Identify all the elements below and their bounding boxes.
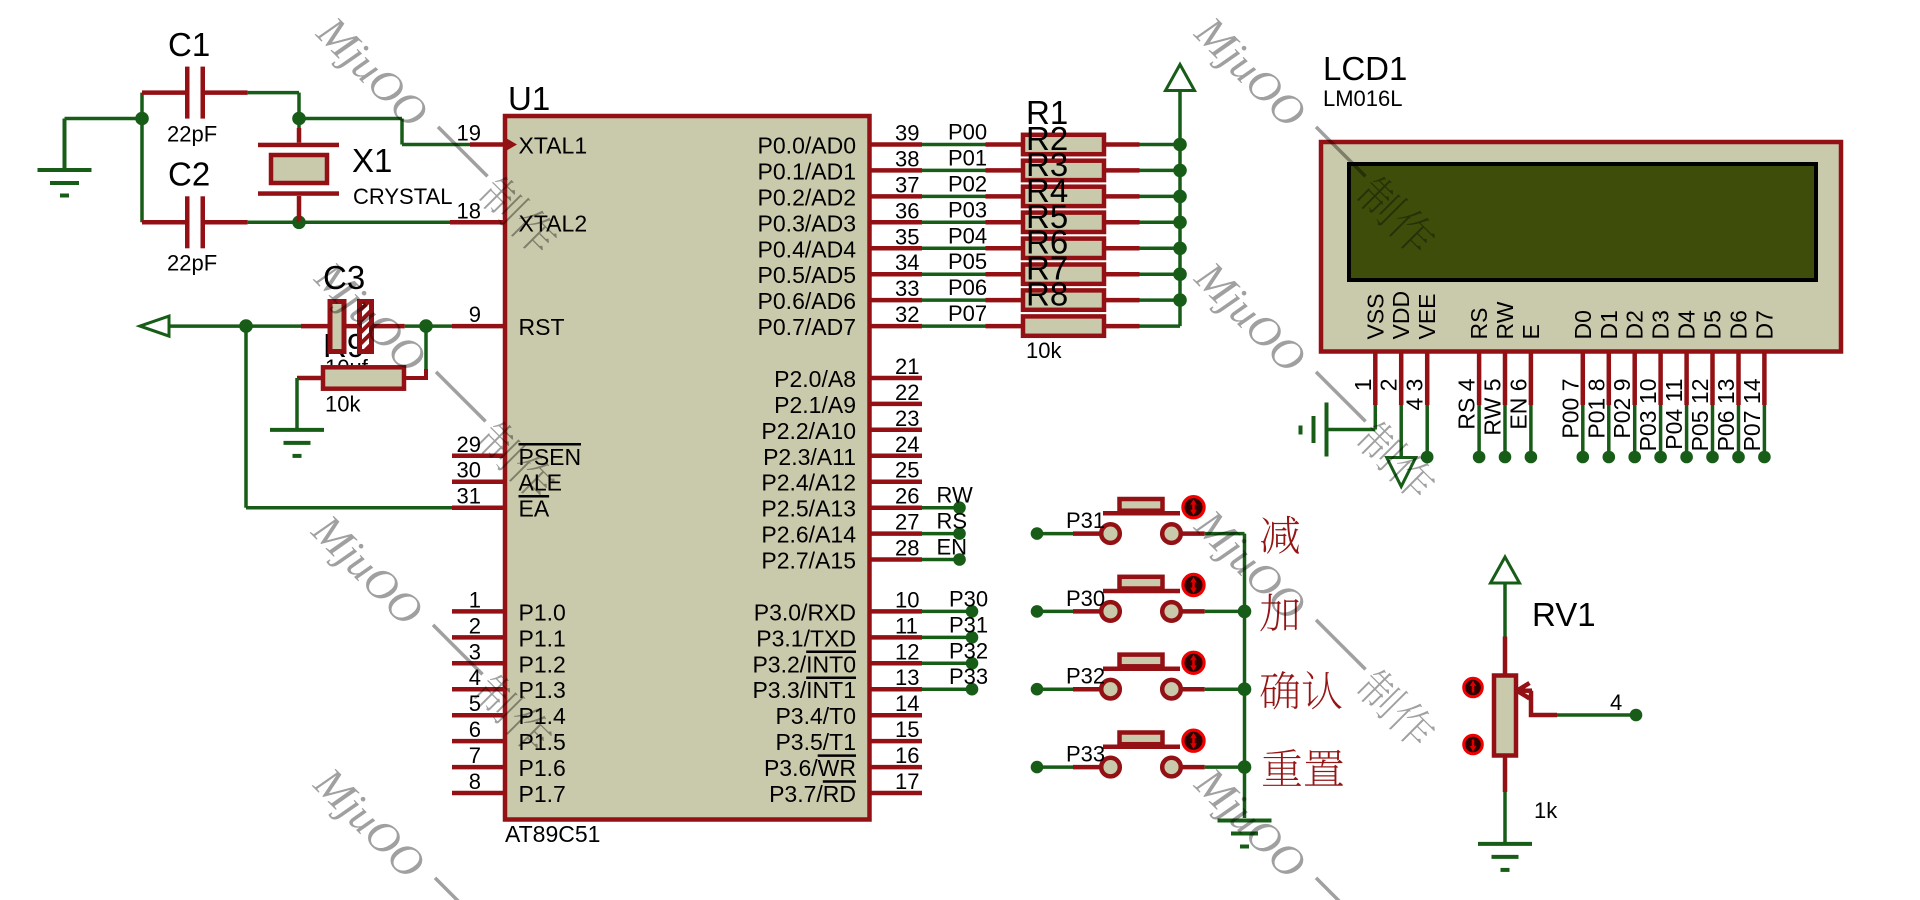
svg-text:P2.1/A9: P2.1/A9: [774, 392, 856, 418]
push button 3 (net P32): [1101, 655, 1181, 699]
terminal dot LCD pin 4: [1473, 451, 1486, 464]
svg-text:P2.6/A14: P2.6/A14: [761, 522, 856, 548]
pin 3 VEE (LCD1): [1414, 293, 1440, 405]
svg-text:8: 8: [469, 769, 481, 794]
svg-text:P1.6: P1.6: [519, 755, 566, 781]
pin 4 RS (LCD1): [1466, 308, 1492, 405]
wire XTAL1 to pin 19: [299, 119, 505, 145]
pin 23 P2.2/A10 (U1 right): [761, 406, 922, 444]
svg-text:19: 19: [457, 121, 481, 146]
svg-text:P33: P33: [1066, 742, 1105, 767]
resistor R7: [1023, 290, 1180, 309]
svg-text:23: 23: [895, 406, 919, 431]
svg-text:LM016L: LM016L: [1323, 86, 1403, 111]
terminal dot LCD pin 12: [1706, 451, 1719, 464]
svg-text:D1: D1: [1596, 310, 1622, 339]
svg-text:D4: D4: [1674, 310, 1700, 340]
button 2 actuator icon: [1183, 574, 1204, 595]
svg-text:24: 24: [895, 432, 919, 457]
svg-text:C2: C2: [168, 156, 210, 193]
pin 1 P1.0 (U1 left): [452, 587, 566, 625]
svg-text:P2.2/A10: P2.2/A10: [761, 418, 856, 444]
svg-text:2: 2: [1376, 379, 1402, 392]
terminal dot LCD pin 6: [1525, 451, 1538, 464]
pin 28 P2.7/A15 (U1 right): [761, 536, 922, 574]
pin 37 P0.2/AD2 (U1 right): [758, 172, 922, 210]
terminal dot LCD pin 11: [1680, 451, 1693, 464]
wire P00 net (U1 to R1): [922, 143, 1023, 147]
svg-text:1: 1: [1350, 379, 1376, 392]
wire ground to node A: [65, 117, 143, 121]
svg-text:P02: P02: [948, 171, 987, 196]
svg-text:X1: X1: [352, 142, 392, 179]
junction R7 bus: [1173, 293, 1187, 307]
svg-text:P2.4/A12: P2.4/A12: [761, 470, 856, 496]
svg-text:P06 13: P06 13: [1713, 379, 1739, 452]
junction R3 bus: [1173, 190, 1187, 204]
wire LCD pin 9: [1633, 405, 1637, 451]
svg-text:P1.2: P1.2: [519, 651, 566, 677]
LCD screen: [1349, 164, 1816, 280]
svg-text:P00: P00: [948, 120, 987, 145]
svg-text:P01: P01: [948, 145, 987, 170]
svg-text:35: 35: [895, 224, 919, 249]
wire LCD pin 11: [1685, 405, 1689, 451]
svg-text:P1.1: P1.1: [519, 625, 566, 651]
svg-text:P06: P06: [948, 275, 987, 300]
resistor R1: [1023, 135, 1180, 154]
pin 14 P3.4/T0 (U1 right): [775, 691, 922, 729]
svg-text:RST: RST: [519, 314, 565, 340]
svg-text:22: 22: [895, 380, 919, 405]
svg-text:P32: P32: [949, 638, 988, 663]
svg-text:AT89C51: AT89C51: [505, 821, 600, 847]
pin 39 P0.0/AD0 (U1 right): [758, 121, 922, 159]
pin 16 P3.6/WR (U1 right): [764, 743, 922, 781]
pin 36 P0.3/AD3 (U1 right): [758, 198, 922, 236]
pin 33 P0.6/AD6 (U1 right): [758, 276, 922, 314]
svg-text:38: 38: [895, 146, 919, 171]
wire button 4 left: [1037, 765, 1101, 769]
junction R2 bus: [1173, 164, 1187, 178]
svg-text:P3.3/INT1: P3.3/INT1: [752, 677, 856, 703]
wire button 2 left: [1037, 610, 1101, 614]
terminal dot LCD pin 3: [1421, 451, 1434, 464]
wire R1 bus vertical: [1178, 91, 1182, 327]
power arrow (R1 bus): [1166, 65, 1195, 91]
terminal dot button 2: [1031, 605, 1044, 618]
resistor R5: [1023, 239, 1180, 258]
wire RST row: [169, 324, 505, 328]
svg-text:P0.3/AD3: P0.3/AD3: [758, 210, 856, 236]
pin 30 ALE (U1 left): [452, 458, 562, 496]
svg-text:P3.2/INT0: P3.2/INT0: [752, 651, 856, 677]
RV1 down icon: [1464, 735, 1483, 754]
wire button 1 left: [1037, 532, 1101, 536]
svg-text:14: 14: [895, 691, 919, 716]
wire net RS (U1): [922, 532, 960, 536]
ground (LCD VSS, rotated): [1301, 403, 1327, 457]
pin 12 D5 (LCD1): [1700, 310, 1726, 405]
svg-text:P31: P31: [1066, 508, 1105, 533]
pin 31 EA (U1 left): [457, 484, 550, 522]
wire button 2 right: [1181, 609, 1245, 614]
svg-text:P2.5/A13: P2.5/A13: [761, 496, 856, 522]
svg-text:31: 31: [457, 484, 481, 509]
button 3 actuator icon: [1183, 652, 1204, 673]
svg-text:P1.5: P1.5: [519, 729, 566, 755]
wire P07 net (U1 to R8): [922, 324, 1023, 328]
resistor R3: [1023, 187, 1180, 206]
watermark tiles: [302, 7, 1443, 900]
svg-text:2: 2: [469, 613, 481, 638]
svg-text:LCD1: LCD1: [1323, 50, 1407, 87]
pin 14 D7 (LCD1): [1751, 310, 1777, 405]
ground (button bus): [1218, 821, 1272, 847]
wire LCD pin 14: [1763, 405, 1767, 451]
svg-text:P07 14: P07 14: [1739, 378, 1765, 451]
capacitor C2: [185, 196, 205, 248]
wire LCD pin 13: [1737, 405, 1741, 451]
svg-text:P1.0: P1.0: [519, 599, 566, 625]
svg-text:P3.1/TXD: P3.1/TXD: [756, 625, 856, 651]
svg-text:P3.7/RD: P3.7/RD: [769, 781, 856, 807]
svg-text:RV1: RV1: [1532, 596, 1596, 633]
junction button bus 4: [1238, 760, 1252, 774]
wire LCD pin 12: [1711, 405, 1715, 451]
pin 29 PSEN (U1 left): [452, 432, 581, 470]
svg-text:39: 39: [895, 121, 919, 146]
pin 5 P1.4 (U1 left): [452, 691, 566, 729]
wire RV1 bottom: [1503, 756, 1508, 843]
pin 9 RST (U1 left): [469, 302, 565, 340]
wire RST net to EA pin 31: [246, 326, 505, 508]
pin 34 P0.5/AD5 (U1 right): [758, 250, 922, 288]
svg-text:10: 10: [895, 587, 919, 612]
wire LCD pin 3: [1425, 405, 1429, 451]
terminal dot LCD pin 9: [1628, 451, 1641, 464]
terminal dot RS: [953, 527, 966, 540]
svg-text:P32: P32: [1066, 664, 1105, 689]
svg-text:34: 34: [895, 250, 919, 275]
ground (near C1/C2): [38, 119, 92, 196]
svg-text:D0: D0: [1570, 310, 1596, 339]
svg-text:P0.2/AD2: P0.2/AD2: [758, 184, 856, 210]
svg-text:RW: RW: [1492, 301, 1518, 339]
svg-text:7: 7: [469, 743, 481, 768]
svg-text:29: 29: [457, 432, 481, 457]
wire LCD pin 4: [1477, 405, 1481, 451]
wire RV1 wiper to node 4: [1557, 713, 1630, 717]
pin 8 P1.7 (U1 left): [452, 769, 566, 807]
resistor R6: [1023, 265, 1180, 284]
svg-text:P0.7/AD7: P0.7/AD7: [758, 314, 856, 340]
svg-text:D7: D7: [1751, 310, 1777, 339]
wire LCD pin 10: [1659, 405, 1663, 451]
wire P05 net (U1 to R6): [922, 272, 1023, 276]
svg-text:28: 28: [895, 536, 919, 561]
svg-text:22pF: 22pF: [167, 250, 217, 275]
svg-text:6: 6: [469, 717, 481, 742]
svg-text:16: 16: [895, 743, 919, 768]
pin 13 P3.3/INT1 (U1 right): [752, 665, 922, 703]
wire net P32 (U1): [922, 662, 972, 666]
terminal dot RW: [953, 501, 966, 514]
svg-text:P04 11: P04 11: [1661, 379, 1687, 450]
pin 11 D4 (LCD1): [1674, 310, 1700, 405]
svg-text:21: 21: [895, 354, 919, 379]
terminal dot LCD pin 13: [1732, 451, 1745, 464]
svg-text:10k: 10k: [325, 392, 361, 417]
terminal dot LCD pin 10: [1654, 451, 1667, 464]
pin 13 D6 (LCD1): [1726, 310, 1752, 405]
svg-text:P3.5/T1: P3.5/T1: [775, 729, 856, 755]
wire net P31 (U1): [922, 636, 972, 640]
pin 2 VDD (LCD1): [1388, 291, 1414, 405]
junction button bus 3: [1238, 682, 1252, 696]
svg-text:RW: RW: [937, 483, 973, 508]
node A junction: [135, 112, 149, 126]
pin 25 P2.4/A12 (U1 right): [761, 458, 922, 496]
resistor R9: [297, 326, 426, 389]
svg-text:P0.5/AD5: P0.5/AD5: [758, 262, 856, 288]
wire VSS to ground: [1327, 405, 1376, 430]
pin 7 P1.6 (U1 left): [452, 743, 566, 781]
svg-text:R8: R8: [1026, 276, 1068, 313]
svg-text:11: 11: [895, 613, 918, 638]
pin 1 VSS (LCD1): [1362, 293, 1388, 405]
XTAL1 input arrow marker: [505, 138, 517, 152]
svg-text:1k: 1k: [1534, 798, 1558, 823]
svg-text:4: 4: [1610, 690, 1622, 715]
svg-text:P31: P31: [949, 612, 988, 637]
terminal dot P31: [966, 631, 979, 644]
svg-text:P02 9: P02 9: [1609, 379, 1635, 439]
svg-text:P1.3: P1.3: [519, 677, 566, 703]
power arrow (RV1 top): [1491, 557, 1520, 583]
svg-text:13: 13: [895, 665, 919, 690]
terminal dot LCD pin 8: [1603, 451, 1616, 464]
caption 加 (button 2): [1260, 593, 1298, 631]
pin 6 E (LCD1): [1518, 324, 1544, 405]
terminal dot net 4: [1630, 709, 1643, 722]
pin 15 P3.5/T1 (U1 right): [775, 717, 922, 755]
capacitor C1: [185, 67, 205, 119]
svg-text:32: 32: [895, 302, 919, 327]
pin 26 P2.5/A13 (U1 right): [761, 484, 922, 522]
potentiometer RV1: [1494, 676, 1557, 756]
svg-text:22pF: 22pF: [167, 122, 217, 147]
svg-text:P00 7: P00 7: [1557, 379, 1583, 439]
svg-text:VDD: VDD: [1388, 291, 1414, 340]
terminal dot LCD pin 7: [1577, 451, 1590, 464]
svg-text:D2: D2: [1622, 310, 1648, 339]
svg-text:VEE: VEE: [1414, 293, 1440, 339]
wire LCD pin 7: [1581, 405, 1585, 451]
pin 7 D0 (LCD1): [1570, 310, 1596, 405]
pin 18 XTAL2 (U1 left): [457, 198, 588, 236]
wire net EN (U1): [922, 558, 960, 562]
terminal dot P33: [966, 683, 979, 696]
pin 27 P2.6/A14 (U1 right): [761, 510, 922, 548]
svg-text:P3.0/RXD: P3.0/RXD: [754, 599, 856, 625]
svg-text:XTAL1: XTAL1: [519, 133, 588, 159]
wire R9 left to ground: [295, 378, 299, 428]
svg-text:P0.6/AD6: P0.6/AD6: [758, 288, 856, 314]
wire LCD pin 6: [1529, 405, 1533, 451]
junction R6 bus: [1173, 267, 1187, 281]
svg-text:C1: C1: [168, 26, 210, 63]
junction button bus 2: [1238, 605, 1252, 619]
svg-text:P04: P04: [948, 223, 987, 248]
pin 2 P1.1 (U1 left): [452, 613, 566, 651]
pin 10 P3.0/RXD (U1 right): [754, 587, 922, 625]
svg-text:18: 18: [457, 198, 481, 223]
wire LCD pin 5: [1503, 405, 1507, 451]
wire P02 net (U1 to R3): [922, 195, 1023, 199]
wire button 1 right: [1181, 531, 1245, 536]
wire P01 net (U1 to R2): [922, 169, 1023, 173]
terminal dot button 3: [1031, 683, 1044, 696]
wire C1 right: [205, 93, 299, 119]
pin 38 P0.1/AD1 (U1 right): [758, 146, 922, 184]
resistor R8: [1023, 316, 1180, 335]
svg-text:P1.7: P1.7: [519, 781, 566, 807]
terminal dot button 1: [1031, 527, 1044, 540]
caption 重置 (button 4): [1263, 749, 1343, 786]
pin 8 D1 (LCD1): [1596, 310, 1622, 405]
node D junction (RST left): [239, 319, 253, 333]
svg-text:RW 5: RW 5: [1480, 379, 1506, 436]
wire XTAL2 to pin 18: [299, 221, 505, 225]
pin 24 P2.3/A11 (U1 right): [763, 432, 922, 470]
push button 2 (net P30): [1101, 577, 1181, 621]
wire RV1 top: [1503, 583, 1507, 676]
resistor R2: [1023, 161, 1180, 180]
svg-text:E: E: [1518, 324, 1544, 339]
resistor R4: [1023, 213, 1180, 232]
svg-text:P2.3/A11: P2.3/A11: [763, 444, 856, 470]
terminal dot LCD pin 5: [1499, 451, 1512, 464]
pin 9 D2 (LCD1): [1622, 310, 1648, 405]
svg-text:P33: P33: [949, 664, 988, 689]
wire P04 net (U1 to R5): [922, 247, 1023, 251]
wire net P30 (U1): [922, 610, 972, 614]
pin 22 P2.1/A9 (U1 right): [774, 380, 922, 418]
svg-text:36: 36: [895, 198, 919, 223]
crystal X1: [258, 119, 339, 223]
svg-text:27: 27: [895, 510, 919, 535]
terminal dot P30: [966, 605, 979, 618]
svg-text:P2.7/A15: P2.7/A15: [761, 548, 856, 574]
svg-text:P01 8: P01 8: [1583, 379, 1609, 439]
pin 5 RW (LCD1): [1492, 301, 1518, 405]
pin 32 P0.7/AD7 (U1 right): [758, 302, 922, 340]
svg-text:P05 12: P05 12: [1687, 379, 1713, 452]
svg-text:VSS: VSS: [1362, 293, 1388, 339]
svg-text:4 3: 4 3: [1402, 379, 1428, 411]
wire button 3 right: [1181, 687, 1245, 692]
svg-text:RS: RS: [937, 509, 968, 534]
op-chip U1 body (AT89C51): [505, 116, 870, 820]
node C junction (XTAL2 net): [292, 216, 306, 230]
svg-text:XTAL2: XTAL2: [519, 210, 588, 236]
wire left vertical C1-C2: [142, 93, 185, 223]
RV1 up icon: [1464, 678, 1483, 697]
caption 减 (button 1): [1261, 516, 1299, 554]
svg-text:30: 30: [457, 458, 481, 483]
svg-text:P2.0/A8: P2.0/A8: [774, 366, 856, 392]
svg-text:U1: U1: [508, 80, 550, 117]
svg-text:D6: D6: [1726, 310, 1752, 339]
terminal dot LCD pin 14: [1758, 451, 1771, 464]
pin 3 P1.2 (U1 left): [452, 639, 566, 677]
svg-text:EN: EN: [937, 535, 968, 560]
caption 确认 (button 3): [1260, 671, 1341, 709]
svg-text:17: 17: [895, 769, 919, 794]
push button 1 (net P31): [1101, 499, 1181, 543]
svg-text:CRYSTAL: CRYSTAL: [353, 184, 452, 209]
node B junction (XTAL1 net): [292, 112, 306, 126]
svg-text:P3.6/WR: P3.6/WR: [764, 755, 856, 781]
svg-text:37: 37: [895, 172, 919, 197]
terminal dot EN: [953, 553, 966, 566]
svg-text:EN 6: EN 6: [1505, 379, 1531, 430]
svg-text:25: 25: [895, 458, 919, 483]
svg-text:P07: P07: [948, 301, 987, 326]
svg-text:P30: P30: [1066, 586, 1105, 611]
wire P03 net (U1 to R4): [922, 221, 1023, 225]
pin 6 P1.5 (U1 left): [452, 717, 566, 755]
button 1 actuator icon: [1183, 497, 1204, 518]
pin 10 D3 (LCD1): [1648, 310, 1674, 405]
ground (under R9): [270, 430, 324, 456]
terminal dot P32: [966, 657, 979, 670]
LCD display LCD1 (LM016L) body: [1321, 142, 1841, 352]
pin 11 P3.1/TXD (U1 right): [756, 613, 922, 651]
wire VDD down: [1399, 405, 1403, 458]
junction R4 bus: [1173, 216, 1187, 230]
svg-text:9: 9: [469, 302, 481, 327]
svg-text:D5: D5: [1700, 310, 1726, 339]
wire LCD pin 8: [1607, 405, 1611, 451]
svg-text:P03: P03: [948, 197, 987, 222]
svg-text:P0.0/AD0: P0.0/AD0: [758, 133, 856, 159]
push button 4 (net P33): [1101, 733, 1181, 777]
svg-text:P0.1/AD1: P0.1/AD1: [758, 158, 856, 184]
svg-text:1: 1: [469, 587, 481, 612]
svg-text:P30: P30: [949, 586, 988, 611]
wire button 4 right: [1181, 765, 1245, 770]
svg-text:P3.4/T0: P3.4/T0: [775, 703, 856, 729]
ground (RV1): [1478, 844, 1532, 870]
svg-text:P05: P05: [948, 249, 987, 274]
junction R1 bus: [1173, 138, 1187, 152]
wire button bus vertical: [1243, 534, 1247, 818]
pin 4 P1.3 (U1 left): [452, 665, 566, 703]
svg-text:D3: D3: [1648, 310, 1674, 339]
input terminal arrow (RST net): [140, 316, 169, 336]
wire C2 right: [205, 220, 299, 225]
power arrow down (LCD VDD): [1387, 458, 1416, 487]
svg-text:P03 10: P03 10: [1635, 379, 1661, 452]
capacitor C3 (electrolytic): [330, 302, 372, 352]
svg-text:PSEN: PSEN: [519, 444, 582, 470]
svg-text:P0.4/AD4: P0.4/AD4: [758, 236, 857, 262]
pin 21 P2.0/A8 (U1 right): [774, 354, 922, 392]
node E junction (RST right): [419, 319, 433, 333]
svg-text:10k: 10k: [1026, 338, 1062, 363]
